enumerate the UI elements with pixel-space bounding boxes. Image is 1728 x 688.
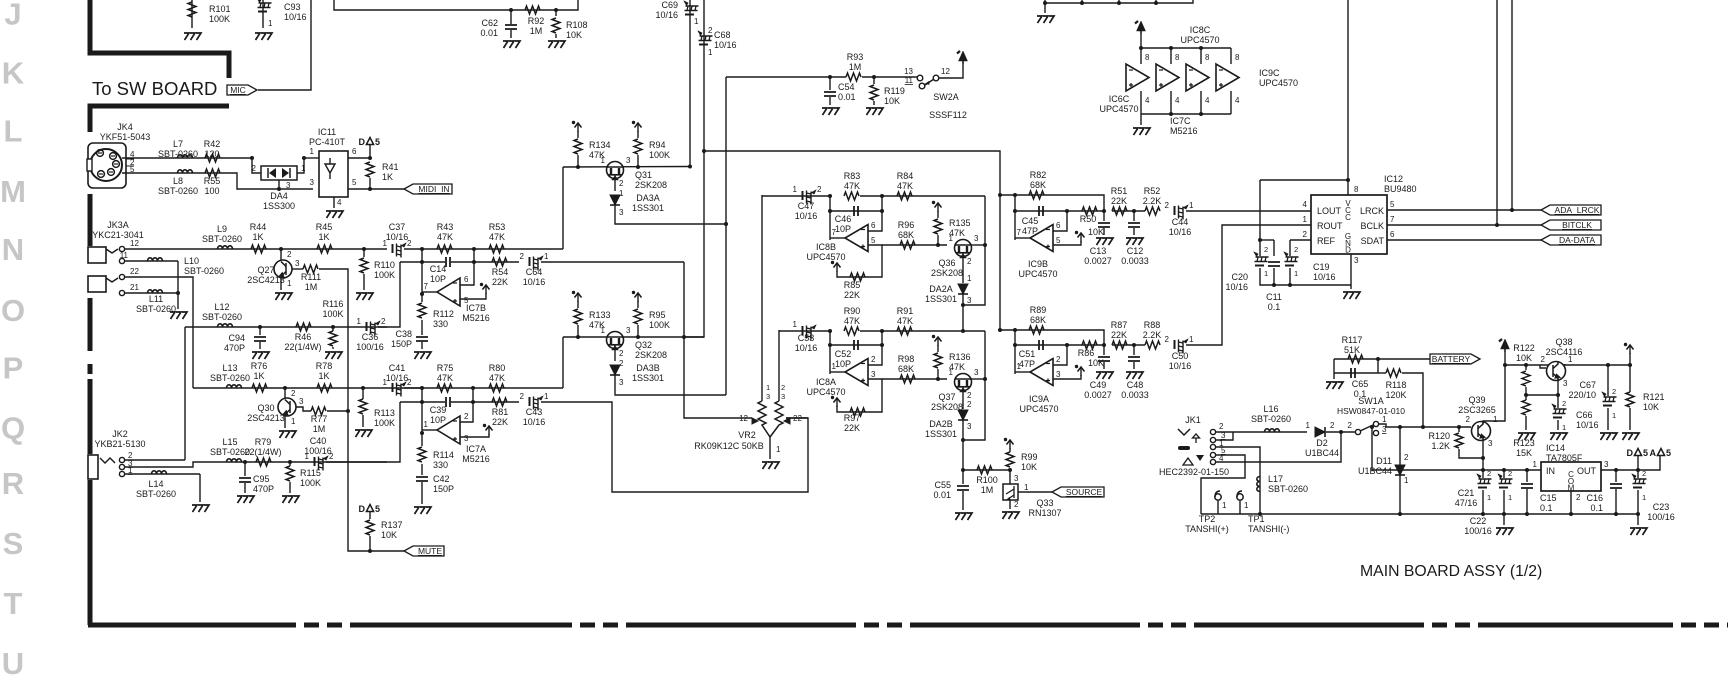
- op-amp triangle 3: [1186, 64, 1209, 91]
- op-amp IC7B: [437, 278, 460, 306]
- resistor R134: [574, 139, 582, 154]
- power arrow: [572, 291, 582, 302]
- ground: [1518, 433, 1535, 440]
- svg-text:2: 2: [619, 349, 624, 358]
- svg-text:1M: 1M: [305, 282, 318, 292]
- svg-text:1: 1: [1568, 355, 1573, 364]
- svg-text:REF: REF: [1317, 236, 1336, 246]
- capacitor C51: [1039, 340, 1043, 350]
- svg-text:10K: 10K: [381, 530, 397, 540]
- svg-text:1M: 1M: [530, 26, 543, 36]
- ground: [1096, 238, 1113, 245]
- svg-text:5: 5: [1643, 448, 1648, 458]
- resistor R93: [846, 73, 861, 81]
- svg-text:1: 1: [287, 279, 292, 288]
- svg-text:47K: 47K: [489, 373, 505, 383]
- potentiometer VR2 RK09K12C 50KB: [761, 195, 763, 401]
- svg-text:IC8A: IC8A: [816, 377, 836, 387]
- svg-text:10K: 10K: [1088, 227, 1104, 237]
- svg-text:2: 2: [1303, 230, 1308, 239]
- wire pin4 stub: [1140, 91, 1142, 114]
- wire MIDI top: [122, 157, 252, 159]
- svg-text:R115: R115: [300, 468, 321, 478]
- svg-text:C53: C53: [798, 333, 815, 343]
- wire Q30 base: [296, 407, 311, 411]
- svg-text:100/16: 100/16: [1464, 526, 1492, 536]
- net tag DA-DATA: [1541, 235, 1601, 245]
- resistor R88: [1145, 341, 1160, 349]
- svg-text:3: 3: [871, 370, 876, 379]
- svg-text:22K: 22K: [492, 417, 508, 427]
- wire C52 line: [830, 344, 882, 346]
- wire R43 R53 line: [422, 248, 563, 250]
- svg-text:C36: C36: [362, 332, 379, 342]
- resistor R89: [1029, 326, 1044, 334]
- wire: [1140, 114, 1142, 125]
- capacitor C55: [957, 486, 969, 490]
- wire: [555, 10, 557, 16]
- svg-text:R93: R93: [847, 52, 864, 62]
- wire top rail: [1045, 0, 1193, 3]
- capacitor C23: [1637, 456, 1639, 478]
- wire DA2B node: [962, 420, 964, 470]
- svg-text:0.0027: 0.0027: [1084, 390, 1112, 400]
- wire IC12 GND pin3: [1350, 254, 1352, 289]
- svg-text:8: 8: [1175, 53, 1180, 62]
- svg-text:10/16: 10/16: [523, 417, 546, 427]
- wire LRCK pin5: [1387, 209, 1541, 211]
- capacitor C47: [803, 190, 817, 205]
- svg-text:C62: C62: [481, 18, 498, 28]
- svg-text:1: 1: [1189, 201, 1194, 210]
- svg-text:C94: C94: [228, 333, 245, 343]
- resistor R43: [437, 245, 452, 253]
- power arrow: [1004, 438, 1014, 449]
- wire Q30 collector: [284, 388, 286, 398]
- power arrow: [932, 335, 942, 346]
- svg-text:C21: C21: [1458, 488, 1475, 498]
- svg-text:5: 5: [1666, 448, 1671, 458]
- ground: [548, 41, 565, 48]
- resistor R111: [303, 265, 318, 273]
- svg-text:R83: R83: [844, 171, 861, 181]
- wire VCC branch to caps: [1260, 179, 1348, 181]
- wire R115: [289, 462, 291, 466]
- svg-text:0.1: 0.1: [1540, 503, 1553, 513]
- svg-text:3: 3: [1563, 379, 1568, 388]
- board border segment: [88, 194, 93, 246]
- inductor L15 SBT-0260: [227, 459, 242, 462]
- transistor Q30 2SC4213: [278, 398, 296, 416]
- svg-text:U1BC44: U1BC44: [1358, 466, 1392, 476]
- svg-text:C23: C23: [1653, 502, 1670, 512]
- resistor R80: [489, 384, 504, 392]
- wire R122 to Q38 emitter: [1526, 394, 1558, 396]
- svg-text:47P: 47P: [1019, 359, 1035, 369]
- ground: [1622, 433, 1639, 440]
- op-amp IC9B: [1030, 225, 1053, 252]
- svg-text:10/16: 10/16: [795, 211, 818, 221]
- wire: [369, 178, 371, 189]
- svg-text:UPC4570: UPC4570: [1099, 104, 1138, 114]
- svg-text:C50: C50: [1172, 351, 1189, 361]
- ground: [1002, 512, 1019, 519]
- svg-text:DA-DATA: DA-DATA: [1559, 235, 1595, 245]
- svg-text:12: 12: [130, 239, 139, 248]
- svg-text:DA3A: DA3A: [636, 193, 660, 203]
- wire input channel L: [125, 248, 387, 250]
- wire gate riser from R53: [562, 167, 564, 249]
- svg-text:R111: R111: [301, 272, 321, 282]
- capacitor C15: [1525, 468, 1529, 472]
- svg-text:Q30: Q30: [257, 403, 274, 413]
- resistor R137: [366, 520, 374, 535]
- svg-text:SBT-0260: SBT-0260: [1251, 414, 1291, 424]
- svg-text:SBT-0260: SBT-0260: [184, 266, 224, 276]
- transistor Q27 2SC4213: [274, 260, 292, 278]
- wire Q31 source: [614, 179, 616, 191]
- svg-text:R87: R87: [1111, 320, 1128, 330]
- svg-text:1: 1: [1382, 415, 1387, 424]
- svg-text:3: 3: [1354, 256, 1359, 265]
- svg-text:U1BC44: U1BC44: [1305, 448, 1339, 458]
- svg-text:C42: C42: [433, 474, 450, 484]
- ground: [1496, 528, 1513, 535]
- wire: [577, 325, 579, 337]
- svg-text:C48: C48: [1127, 380, 1144, 390]
- capacitor C69: [684, 1, 699, 15]
- svg-text:2: 2: [1165, 201, 1170, 210]
- wire L13 rail: [193, 387, 422, 389]
- svg-text:15K: 15K: [1516, 448, 1532, 458]
- svg-text:1: 1: [544, 392, 549, 401]
- svg-text:22K: 22K: [844, 423, 860, 433]
- svg-text:R79: R79: [255, 437, 272, 447]
- svg-text:1: 1: [268, 19, 273, 28]
- capacitor C64: [530, 256, 544, 271]
- wire into IC11 pin1: [304, 157, 319, 159]
- wire: [1112, 210, 1145, 212]
- inductor L11 SBT-0260: [148, 290, 163, 293]
- svg-text:1: 1: [708, 48, 713, 57]
- capacitor C22: [1502, 468, 1506, 472]
- net tag MIDI_IN: [404, 184, 452, 194]
- wire bottom common rail: [1201, 513, 1638, 515]
- wire C64 output to mute column: [541, 261, 684, 263]
- svg-text:R91: R91: [897, 306, 914, 316]
- svg-text:100K: 100K: [374, 418, 395, 428]
- wire: [289, 482, 291, 493]
- svg-text:R116: R116: [323, 299, 344, 309]
- svg-text:R117: R117: [1342, 335, 1363, 345]
- svg-text:D11: D11: [1376, 456, 1392, 466]
- svg-text:2: 2: [1330, 421, 1335, 430]
- VR2 right element: [770, 401, 783, 437]
- svg-text:UPC4570: UPC4570: [1180, 35, 1219, 45]
- ground: [192, 505, 209, 512]
- diode DA3B 1SS301: [610, 365, 620, 375]
- wire jack pin2 to L12 riser: [125, 459, 185, 461]
- resistor R114: [418, 447, 426, 462]
- wire: [637, 325, 639, 337]
- svg-text:10/16: 10/16: [655, 10, 678, 20]
- inductor L17 SBT-0260: [1257, 477, 1260, 492]
- ground: [955, 513, 972, 520]
- svg-text:R81: R81: [492, 407, 509, 417]
- IC IC12 BU9480: [1311, 195, 1387, 254]
- svg-text:10P: 10P: [835, 224, 851, 234]
- resistor R77: [311, 407, 326, 415]
- wire C14 R54 line: [400, 261, 445, 263]
- svg-text:R82: R82: [1030, 170, 1047, 180]
- wire pin8 stub: [1230, 48, 1232, 64]
- ground: [414, 507, 431, 514]
- resistor R75: [437, 384, 452, 392]
- board border notch below To SW BOARD: [90, 106, 229, 132]
- op-amp triangle 4: [1216, 64, 1239, 91]
- svg-text:R120: R120: [1428, 431, 1450, 441]
- svg-text:7: 7: [424, 282, 429, 291]
- VR2 left element: [758, 401, 770, 437]
- wire R119: [873, 77, 875, 84]
- svg-text:47K: 47K: [437, 373, 453, 383]
- capacitor C46: [854, 206, 858, 216]
- wire IC7A pin3 to analog supply: [460, 434, 489, 437]
- svg-text:MUTE: MUTE: [418, 546, 442, 556]
- svg-text:2SC4213: 2SC4213: [247, 413, 285, 423]
- svg-text:L17: L17: [1268, 474, 1283, 484]
- ground: [275, 293, 292, 300]
- ground: [355, 430, 372, 437]
- wire IC7A output pin1: [422, 429, 437, 431]
- svg-text:120: 120: [204, 149, 219, 159]
- wire L12 rail left riser from jack 2: [184, 327, 186, 460]
- capacitor C21: [1482, 470, 1484, 478]
- net tag MUTE: [404, 546, 444, 556]
- svg-text:JK2: JK2: [112, 429, 128, 439]
- diode D11 U1BC44: [1399, 427, 1401, 514]
- wire mix rail with L12: [185, 326, 387, 328]
- wire: [873, 101, 875, 105]
- svg-text:HSW0847-01-010: HSW0847-01-010: [1337, 406, 1405, 416]
- wire: [510, 10, 512, 24]
- svg-text:C40: C40: [310, 436, 327, 446]
- svg-text:22K: 22K: [844, 290, 860, 300]
- svg-text:R53: R53: [489, 222, 506, 232]
- inductor L13 SBT-0260: [227, 385, 242, 388]
- wire BCLK pin7: [1387, 224, 1541, 226]
- wire DA3B to mute drive: [615, 375, 726, 395]
- svg-text:DA2A: DA2A: [929, 284, 953, 294]
- svg-text:10P: 10P: [430, 274, 446, 284]
- FET Q37 2SK208: [955, 374, 972, 391]
- wire to DA4 pin2: [252, 158, 261, 173]
- svg-text:Q31: Q31: [635, 170, 652, 180]
- svg-text:22K: 22K: [492, 277, 508, 287]
- svg-text:TP1: TP1: [1248, 514, 1265, 524]
- svg-text:2: 2: [407, 378, 412, 387]
- wire R98 line: [882, 378, 947, 380]
- resistor R41: [366, 162, 374, 177]
- capacitor C19: [1284, 252, 1299, 266]
- svg-text:R86: R86: [1078, 348, 1095, 358]
- resistor R82: [1029, 191, 1044, 199]
- capacitor C95: [239, 478, 251, 482]
- svg-text:C38: C38: [395, 329, 412, 339]
- svg-text:C46: C46: [835, 214, 852, 224]
- capacitor C20: [1254, 252, 1269, 266]
- ground: [282, 496, 299, 503]
- svg-text:D2: D2: [1316, 438, 1328, 448]
- svg-text:L15: L15: [222, 437, 237, 447]
- svg-text:10K: 10K: [566, 30, 582, 40]
- wire: [451, 401, 519, 403]
- svg-text:SBT-0260: SBT-0260: [1268, 484, 1308, 494]
- svg-text:IN: IN: [1546, 466, 1555, 476]
- svg-text:L14: L14: [148, 479, 163, 489]
- svg-text:C11: C11: [1266, 292, 1282, 302]
- ground: [237, 496, 254, 503]
- wire R114 from output node: [421, 433, 423, 446]
- svg-text:1: 1: [1189, 335, 1194, 344]
- capacitor C43: [530, 396, 544, 411]
- svg-text:10K: 10K: [884, 96, 900, 106]
- svg-text:8: 8: [1235, 53, 1240, 62]
- svg-text:7: 7: [1390, 215, 1395, 224]
- ground: [762, 462, 779, 469]
- svg-text:3: 3: [464, 434, 469, 443]
- svg-text:10/16: 10/16: [386, 232, 409, 242]
- svg-text:10/16: 10/16: [1169, 227, 1192, 237]
- wire C95: [244, 462, 246, 476]
- wire jack pin1 L14: [125, 473, 200, 475]
- svg-text:TANSHI(+): TANSHI(+): [1185, 524, 1229, 534]
- svg-text:47K: 47K: [437, 232, 453, 242]
- svg-text:47K: 47K: [844, 181, 860, 191]
- capacitor C62: [505, 25, 517, 29]
- wire Q38 collector: [1564, 364, 1566, 365]
- svg-text:3: 3: [974, 368, 979, 377]
- wire C54: [829, 77, 831, 90]
- wire ground rail pin4: [1141, 113, 1231, 115]
- resistor R97: [850, 408, 865, 416]
- ground: [325, 352, 342, 359]
- svg-text:R121: R121: [1643, 392, 1665, 402]
- svg-text:1: 1: [383, 378, 388, 387]
- op-amp triangle 1: [1126, 64, 1149, 91]
- wire: [334, 0, 578, 10]
- svg-text:0.0027: 0.0027: [1084, 256, 1112, 266]
- svg-text:R76: R76: [251, 361, 268, 371]
- svg-text:100K: 100K: [322, 309, 343, 319]
- resistor R45: [317, 245, 332, 253]
- wire pin2 riser: [1053, 345, 1067, 365]
- svg-text:R46: R46: [295, 332, 312, 342]
- svg-text:C13: C13: [1090, 246, 1107, 256]
- svg-text:MIDI_IN: MIDI_IN: [418, 184, 449, 194]
- resistor R123: [1522, 400, 1530, 415]
- svg-text:C39: C39: [430, 405, 447, 415]
- svg-text:2: 2: [871, 355, 876, 364]
- resistor R119: [870, 85, 878, 100]
- wire: [363, 274, 365, 290]
- wire switched power node: [1379, 424, 1471, 427]
- svg-text:J: J: [4, 0, 21, 32]
- svg-text:8: 8: [1145, 53, 1150, 62]
- diode D11: [1395, 465, 1405, 475]
- svg-text:1: 1: [1642, 493, 1646, 502]
- svg-text:Q39: Q39: [1468, 395, 1485, 405]
- wire R82 top line: [1000, 195, 1104, 211]
- svg-text:10/16: 10/16: [714, 40, 737, 50]
- wire IC11 pin4 to ground: [333, 197, 335, 208]
- svg-text:R78: R78: [316, 361, 333, 371]
- svg-text:2: 2: [464, 412, 469, 421]
- svg-text:2: 2: [967, 391, 972, 400]
- svg-text:N: N: [2, 232, 24, 267]
- wire R89 top line: [1000, 330, 1104, 345]
- inductor L10 SBT-0260: [148, 258, 163, 261]
- capacitor C68: [698, 31, 713, 45]
- capacitor C54: [824, 92, 836, 96]
- wire jack pin 11: [125, 260, 178, 262]
- wire IC9A pin3 to supply: [1053, 375, 1081, 379]
- svg-text:C64: C64: [526, 267, 543, 277]
- svg-text:ROUT: ROUT: [1317, 221, 1343, 231]
- board border segment: [88, 298, 93, 351]
- svg-text:SOURCE: SOURCE: [1066, 487, 1103, 497]
- svg-text:220/10: 220/10: [1568, 390, 1596, 400]
- svg-text:5: 5: [1056, 236, 1061, 245]
- capacitor C45: [1039, 206, 1043, 216]
- svg-text:150P: 150P: [391, 339, 412, 349]
- svg-text:1: 1: [793, 320, 798, 329]
- svg-text:L16: L16: [1263, 404, 1278, 414]
- svg-text:1: 1: [544, 252, 549, 261]
- power arrow: [831, 396, 841, 407]
- svg-text:Q27: Q27: [257, 265, 274, 275]
- svg-text:2.2K: 2.2K: [1143, 330, 1162, 340]
- svg-text:10/16: 10/16: [1313, 272, 1336, 282]
- svg-text:1: 1: [357, 317, 362, 326]
- wire IC7B pin5 to analog supply: [460, 293, 486, 299]
- resistor R50: [1082, 207, 1097, 215]
- wire input vertical: [868, 196, 882, 231]
- svg-text:R75: R75: [437, 363, 454, 373]
- wire IC8A feedback vertical: [829, 331, 831, 374]
- wire gate riser from R80: [562, 337, 564, 388]
- svg-text:5: 5: [464, 296, 469, 305]
- FET Q31 2SK208: [607, 162, 624, 179]
- ground: [1126, 238, 1143, 245]
- svg-text:3: 3: [295, 259, 300, 268]
- ground: [255, 33, 272, 40]
- svg-text:R119: R119: [884, 86, 905, 96]
- svg-text:L7: L7: [173, 139, 183, 149]
- IC IC14 TA7805F: [1541, 462, 1601, 491]
- ground: [356, 293, 373, 300]
- resistor R42: [205, 154, 220, 162]
- resistor R113: [359, 399, 367, 414]
- svg-text:SBT-0260: SBT-0260: [202, 312, 242, 322]
- svg-text:UPC4570: UPC4570: [1018, 269, 1057, 279]
- svg-text:R133: R133: [589, 310, 611, 320]
- svg-text:1SS301: 1SS301: [925, 294, 957, 304]
- inductor L16 SBT-0260: [1265, 429, 1280, 432]
- inductor L9 SBT-0260: [218, 246, 233, 249]
- wire COM pin2: [1570, 491, 1572, 514]
- svg-text:IC14: IC14: [1546, 443, 1565, 453]
